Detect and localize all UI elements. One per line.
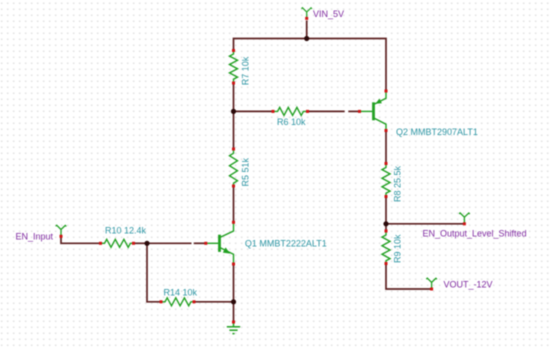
junction node xyxy=(231,299,236,304)
wire xyxy=(233,302,235,322)
resistor R10 xyxy=(101,239,134,247)
pin R5.1 xyxy=(232,148,235,151)
svg-text:R8 25.5k: R8 25.5k xyxy=(392,165,402,202)
pin ground xyxy=(232,321,235,324)
wire xyxy=(307,39,386,92)
pin R10.2 xyxy=(132,242,135,245)
pin R7.2 xyxy=(232,82,235,85)
pin Q2 emitter xyxy=(385,90,388,93)
pin port VIN_5V xyxy=(305,17,308,20)
port EN_Output_Level_Shifted xyxy=(459,213,470,223)
wire xyxy=(233,83,235,111)
svg-text:VOUT_-12V: VOUT_-12V xyxy=(444,280,493,290)
resistor R14 xyxy=(161,298,194,306)
resistor R5 xyxy=(230,149,238,186)
pin R8.2 xyxy=(385,195,388,198)
svg-text:R9 10k: R9 10k xyxy=(393,234,403,263)
pin R14.2 xyxy=(193,300,196,303)
wire xyxy=(385,197,387,224)
pin R9.1 xyxy=(385,230,388,233)
pin R7.1 xyxy=(232,49,235,52)
ground xyxy=(227,323,240,334)
junction node xyxy=(231,109,236,114)
power port VIN_5V xyxy=(301,7,312,18)
resistor R6 xyxy=(273,107,308,115)
junction node xyxy=(383,221,388,226)
wire xyxy=(385,132,387,164)
wire xyxy=(194,242,206,244)
pin Q1 emitter xyxy=(232,263,235,266)
wire xyxy=(234,39,307,51)
junction node xyxy=(144,241,149,246)
pin R6.2 xyxy=(306,110,309,113)
svg-text:EN_Output_Level_Shifted: EN_Output_Level_Shifted xyxy=(423,228,527,238)
pin R8.1 xyxy=(385,162,388,165)
svg-text:R7 10k: R7 10k xyxy=(240,56,250,85)
resistor R8 xyxy=(382,164,390,197)
wire xyxy=(61,238,100,244)
wire xyxy=(234,110,273,112)
pin Q2 base xyxy=(358,110,361,113)
svg-text:R14 10k: R14 10k xyxy=(164,287,198,297)
pin R14.1 xyxy=(160,300,163,303)
wire xyxy=(147,243,161,301)
wire xyxy=(233,111,235,149)
pin R6.1 xyxy=(272,110,275,113)
svg-text:Q2 MMBT2907ALT1: Q2 MMBT2907ALT1 xyxy=(396,127,478,137)
wire xyxy=(134,242,147,244)
wire xyxy=(233,264,235,302)
wire xyxy=(386,223,464,225)
svg-text:EN_Input: EN_Input xyxy=(16,232,54,242)
resistor R9 xyxy=(382,231,390,264)
junction node xyxy=(304,36,309,41)
wire xyxy=(385,224,387,231)
pin R5.2 xyxy=(232,185,235,188)
wire xyxy=(386,264,431,289)
transistor Q2 xyxy=(360,92,386,130)
pin port EN_Output_Level_Shifted xyxy=(463,222,466,225)
svg-text:VIN_5V: VIN_5V xyxy=(313,9,344,19)
pin port EN_Input xyxy=(60,235,63,238)
pin R9.2 xyxy=(385,262,388,265)
wire xyxy=(348,110,359,112)
port EN_Input xyxy=(56,225,67,235)
svg-text:R6 10k: R6 10k xyxy=(277,117,306,127)
pin Q1 collector xyxy=(232,221,235,224)
port VOUT_-12V xyxy=(426,278,437,288)
svg-text:R5 51k: R5 51k xyxy=(240,157,250,186)
transistor Q1 xyxy=(206,223,234,264)
resistor R7 xyxy=(230,51,238,84)
wire xyxy=(147,242,192,244)
wire xyxy=(233,186,235,222)
pin Q1 base xyxy=(204,242,207,245)
wire xyxy=(195,301,234,303)
pin R10.1 xyxy=(99,242,102,245)
svg-text:R10 12.4k: R10 12.4k xyxy=(105,226,147,236)
svg-text:Q1 MMBT2222ALT1: Q1 MMBT2222ALT1 xyxy=(245,238,327,248)
pin Q2 collector xyxy=(385,129,388,132)
pin port VOUT_-12V xyxy=(430,288,433,291)
wire xyxy=(308,110,345,112)
wire xyxy=(306,21,308,39)
